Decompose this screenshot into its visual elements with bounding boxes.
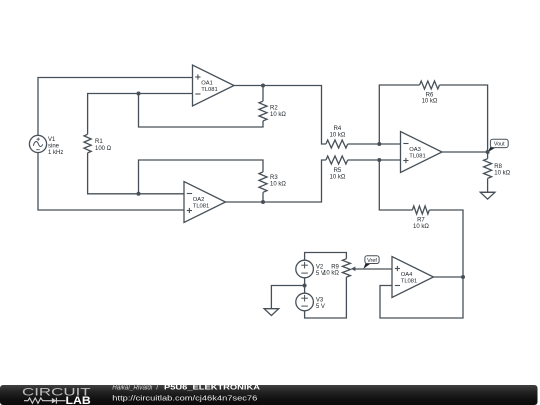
- svg-text:R8: R8: [494, 164, 502, 170]
- svg-text:R1: R1: [95, 139, 103, 145]
- svg-text:Haikal_Rivaldi: Haikal_Rivaldi: [112, 383, 152, 392]
- svg-text:OA2: OA2: [193, 197, 205, 203]
- svg-text:P5U6_ELEKTRONIKA: P5U6_ELEKTRONIKA: [164, 383, 261, 392]
- svg-text:TL081: TL081: [401, 278, 417, 284]
- svg-text:OA3: OA3: [409, 147, 421, 153]
- svg-text:R3: R3: [270, 175, 278, 181]
- svg-text:TL081: TL081: [409, 153, 425, 159]
- svg-text:V2: V2: [316, 264, 324, 270]
- svg-text:R7: R7: [417, 218, 425, 224]
- svg-text:10 kΩ: 10 kΩ: [323, 271, 339, 277]
- svg-text:R5: R5: [334, 168, 342, 174]
- svg-text:10 kΩ: 10 kΩ: [422, 99, 438, 105]
- svg-text:10 kΩ: 10 kΩ: [329, 174, 345, 180]
- svg-text:Vref: Vref: [367, 258, 377, 264]
- svg-text:TL081: TL081: [201, 87, 217, 93]
- svg-text:http://circuitlab.com/cj46k4n7: http://circuitlab.com/cj46k4n7sec76: [112, 393, 257, 402]
- svg-text:10 kΩ: 10 kΩ: [329, 132, 345, 138]
- svg-text:R6: R6: [426, 92, 434, 98]
- svg-text:OA4: OA4: [401, 272, 413, 278]
- svg-text:1 kHz: 1 kHz: [48, 150, 63, 156]
- svg-text:sine: sine: [48, 144, 60, 150]
- svg-text:LAB: LAB: [66, 395, 92, 405]
- svg-text:V1: V1: [48, 137, 56, 143]
- svg-text:TL081: TL081: [193, 203, 209, 209]
- svg-text:10 kΩ: 10 kΩ: [270, 112, 286, 118]
- svg-text:V3: V3: [316, 297, 324, 303]
- svg-text:5 V: 5 V: [316, 304, 325, 310]
- svg-text:10 kΩ: 10 kΩ: [494, 171, 510, 177]
- svg-text:Vout: Vout: [494, 142, 505, 148]
- svg-text:R9: R9: [331, 264, 339, 270]
- svg-text:10 kΩ: 10 kΩ: [270, 182, 286, 188]
- svg-text:R2: R2: [270, 105, 278, 111]
- svg-text:100 Ω: 100 Ω: [95, 146, 112, 152]
- svg-text:R4: R4: [334, 126, 342, 132]
- svg-text:OA1: OA1: [201, 80, 213, 86]
- svg-text:10 kΩ: 10 kΩ: [413, 224, 429, 230]
